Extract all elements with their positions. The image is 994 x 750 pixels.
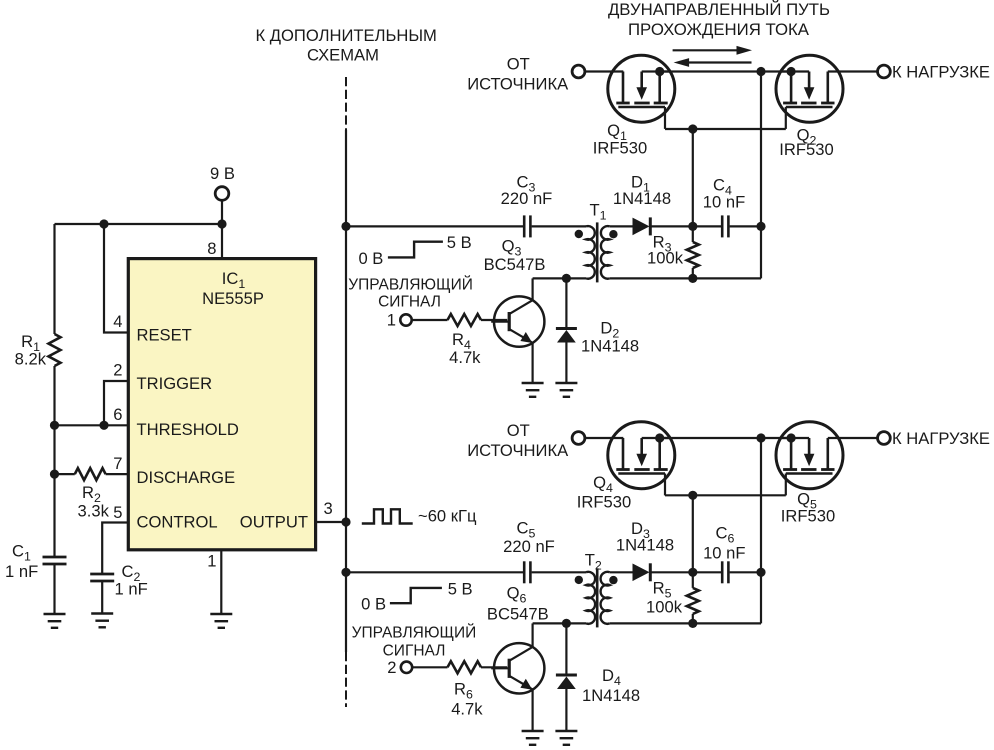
svg-text:8.2k: 8.2k (15, 350, 47, 369)
svg-text:220 nF: 220 nF (503, 537, 555, 556)
junction rail/pin8 (217, 219, 226, 228)
svg-text:К НАГРУЗКЕ: К НАГРУЗКЕ (892, 63, 990, 82)
wire secondary top to diode (610, 225, 633, 227)
junction gate node (688, 222, 697, 231)
wire threshold net pin6 (55, 424, 129, 426)
control input terminal 2 (401, 662, 412, 673)
svg-text:ИСТОЧНИКА: ИСТОЧНИКА (467, 74, 569, 93)
arrow current path right (673, 49, 740, 51)
svg-text:1N4148: 1N4148 (582, 686, 640, 705)
svg-text:~60 кГц: ~60 кГц (418, 507, 477, 526)
diode D 1N4148 clamp (565, 278, 567, 327)
wire source column (760, 438, 762, 623)
svg-text:К НАГРУЗКЕ: К НАГРУЗКЕ (892, 429, 990, 448)
transistor Q BC547B driver (531, 278, 533, 300)
svg-text:IRF530: IRF530 (781, 507, 835, 526)
svg-text:8: 8 (207, 239, 216, 258)
waveform control signal step (388, 242, 443, 258)
capacitor C 10nF speedup (693, 571, 721, 573)
wire bus dashed bottom (345, 652, 347, 707)
wire pin 8 stub (221, 224, 223, 259)
transformer T core (596, 222, 599, 282)
wire Q drain to load terminal (828, 70, 878, 72)
svg-text:10 nF: 10 nF (703, 193, 745, 212)
junction C/source column (756, 568, 765, 577)
transformer T secondary winding (601, 226, 610, 279)
transistor Q IRF530 left MOSFET (608, 55, 675, 129)
svg-text:NE555P: NE555P (202, 289, 264, 308)
svg-text:УПРАВЛЯЮЩИЙ: УПРАВЛЯЮЩИЙ (352, 624, 477, 642)
svg-text:СИГНАЛ: СИГНАЛ (383, 643, 446, 660)
junction gates/gate column (688, 491, 697, 500)
junction output/bus (341, 517, 350, 526)
svg-text:ДВУНАПРАВЛЕННЫЙ ПУТЬ: ДВУНАПРАВЛЕННЫЙ ПУТЬ (608, 0, 830, 19)
svg-text:IRF530: IRF530 (577, 493, 631, 512)
resistor R2 3.3k discharge pin7 (55, 473, 75, 475)
svg-text:6: 6 (113, 405, 122, 424)
capacitor C 220nF coupling (346, 571, 523, 573)
svg-text:0 В: 0 В (361, 595, 386, 614)
svg-text:4: 4 (113, 312, 122, 331)
svg-text:0 В: 0 В (358, 249, 383, 268)
junction threshold/trigger (99, 421, 108, 430)
wire source terminal to Q drain (585, 70, 623, 72)
svg-text:BC547B: BC547B (484, 255, 546, 274)
ground emitter Q (522, 731, 544, 745)
junction gates/gate column (688, 124, 697, 133)
svg-text:7: 7 (113, 454, 122, 473)
diode D 1N4148 gate drive (633, 218, 650, 236)
junction R bottom (688, 619, 697, 628)
transformer T primary phase dot (575, 230, 583, 238)
svg-text:1N4148: 1N4148 (613, 189, 671, 208)
svg-text:RESET: RESET (137, 326, 192, 345)
terminal to load (878, 432, 891, 445)
diode D 1N4148 gate drive (633, 564, 650, 582)
transformer T primary phase dot (575, 576, 583, 584)
wire output bus vertical (345, 130, 347, 652)
junction C/source column (756, 222, 765, 231)
wire R1 to discharge node (53, 425, 55, 474)
wire source column (760, 72, 762, 279)
resistor R 4.7k base (412, 666, 447, 668)
junction discharge node (50, 470, 59, 479)
capacitor C2 1nF (90, 574, 114, 581)
wire gate bus horizontal (665, 494, 786, 496)
ground D (555, 731, 577, 745)
transformer T secondary phase dot (609, 230, 617, 238)
control input terminal 1 (400, 314, 411, 325)
svg-text:2: 2 (387, 658, 396, 677)
ground D (555, 383, 577, 397)
svg-text:CONTROL: CONTROL (137, 513, 218, 532)
power terminal 9V (215, 187, 229, 201)
resistor R 100k gate bleed (687, 588, 699, 614)
wire emitter to ground (531, 690, 533, 732)
resistor R 4.7k base (412, 319, 448, 321)
svg-text:1N4148: 1N4148 (581, 337, 639, 356)
svg-text:ОТ: ОТ (507, 55, 530, 74)
svg-text:5 В: 5 В (447, 233, 472, 252)
svg-text:УПРАВЛЯЮЩИЙ: УПРАВЛЯЮЩИЙ (348, 276, 473, 294)
wire gate column (692, 129, 694, 226)
wire reset net pin4 (104, 224, 128, 333)
wire bottom return primary side (533, 277, 586, 279)
svg-text:2: 2 (113, 361, 122, 380)
wire 9V terminal to rail (221, 201, 223, 225)
wire bottom return secondary (610, 277, 761, 279)
junction primary bottom / clamp diode (562, 619, 571, 628)
svg-text:220 nF: 220 nF (501, 189, 553, 208)
svg-text:1 nF: 1 nF (5, 562, 38, 581)
svg-text:СИГНАЛ: СИГНАЛ (378, 294, 441, 311)
junction sources midpoint (756, 433, 765, 442)
capacitor C1 1nF (53, 474, 55, 557)
wire bottom return secondary (610, 622, 761, 624)
wire pin 1 to ground (220, 550, 222, 614)
terminal to load (878, 65, 891, 78)
junction sources midpoint (756, 67, 765, 76)
ground C1 (44, 614, 66, 628)
svg-text:3.3k: 3.3k (78, 502, 110, 521)
svg-text:ПРОХОЖДЕНИЯ ТОКА: ПРОХОЖДЕНИЯ ТОКА (628, 20, 810, 39)
wire joined sources rail (660, 70, 791, 72)
transistor Q IRF530 right MOSFET (776, 422, 843, 496)
svg-text:BC547B: BC547B (487, 605, 549, 624)
transformer T primary winding (586, 572, 595, 624)
wire source terminal to Q drain (585, 437, 623, 439)
arrow current path left (686, 61, 752, 63)
svg-text:100k: 100k (646, 598, 683, 617)
svg-text:1 nF: 1 nF (115, 580, 148, 599)
svg-text:5 В: 5 В (448, 579, 473, 598)
transformer T primary winding (586, 226, 595, 279)
terminal from source channel A (572, 65, 585, 78)
svg-text:1N4148: 1N4148 (616, 536, 674, 555)
junction rail/reset branch (99, 219, 108, 228)
transistor Q BC547B driver (531, 623, 533, 647)
transistor Q IRF530 right MOSFET (776, 55, 843, 129)
wire gate bus horizontal (665, 128, 786, 130)
junction threshold/R1 (50, 421, 59, 430)
junction gate node (688, 568, 697, 577)
svg-text:9 В: 9 В (210, 164, 235, 183)
svg-text:4.7k: 4.7k (451, 700, 483, 719)
junction R bottom (688, 274, 697, 283)
IC U1 NE555P body (128, 259, 315, 550)
svg-text:THRESHOLD: THRESHOLD (137, 420, 239, 439)
wire control net pin5 (102, 523, 128, 575)
junction bus/channel A (341, 222, 350, 231)
resistor R 100k gate bleed (687, 242, 699, 268)
transistor Q IRF530 left MOSFET (608, 422, 675, 496)
svg-text:4.7k: 4.7k (449, 348, 481, 367)
svg-text:DISCHARGE: DISCHARGE (137, 468, 236, 487)
junction bus/channel B (341, 568, 350, 577)
svg-text:ОТ: ОТ (507, 421, 530, 440)
transformer T secondary winding (601, 572, 610, 624)
wire secondary top to diode (610, 571, 633, 573)
terminal from source channel B (572, 432, 585, 445)
wire joined sources rail (660, 437, 791, 439)
ground pin 1 (210, 614, 232, 628)
resistor R1 8.2k (53, 224, 55, 334)
svg-text:ИСТОЧНИКА: ИСТОЧНИКА (467, 441, 569, 460)
wire Q drain to load terminal (828, 437, 878, 439)
svg-text:IRF530: IRF530 (593, 139, 647, 158)
ground emitter Q (522, 383, 544, 397)
capacitor C 220nF coupling (346, 225, 523, 227)
wire 9V supply rail (55, 223, 223, 225)
wire emitter to ground (531, 343, 533, 383)
svg-text:OUTPUT: OUTPUT (240, 513, 308, 532)
waveform control signal step (390, 588, 442, 603)
svg-text:СХЕМАМ: СХЕМАМ (307, 46, 379, 65)
svg-text:IRF530: IRF530 (779, 140, 833, 159)
svg-text:1: 1 (387, 311, 396, 330)
junction primary bottom / clamp diode (562, 274, 571, 283)
capacitor C 10nF speedup (693, 225, 721, 227)
wire output pin3 to bus (316, 521, 346, 523)
svg-text:TRIGGER: TRIGGER (137, 374, 213, 393)
wire bus dashed top to additional circuits (345, 77, 347, 130)
diode D 1N4148 clamp (565, 623, 567, 673)
wire gate column (692, 495, 694, 572)
svg-text:10 nF: 10 nF (703, 544, 745, 563)
svg-text:100k: 100k (647, 249, 684, 268)
svg-text:3: 3 (324, 499, 333, 518)
svg-text:5: 5 (113, 503, 122, 522)
transformer T core (596, 568, 599, 627)
wire bottom return primary side (533, 622, 586, 624)
svg-text:1: 1 (207, 552, 216, 571)
transformer T secondary phase dot (609, 576, 617, 584)
ground C2 (91, 614, 113, 628)
waveform symbol 60kHz square wave (362, 509, 413, 523)
wire trigger net pin2 (104, 381, 128, 425)
svg-text:К ДОПОЛНИТЕЛЬНЫМ: К ДОПОЛНИТЕЛЬНЫМ (256, 26, 437, 45)
